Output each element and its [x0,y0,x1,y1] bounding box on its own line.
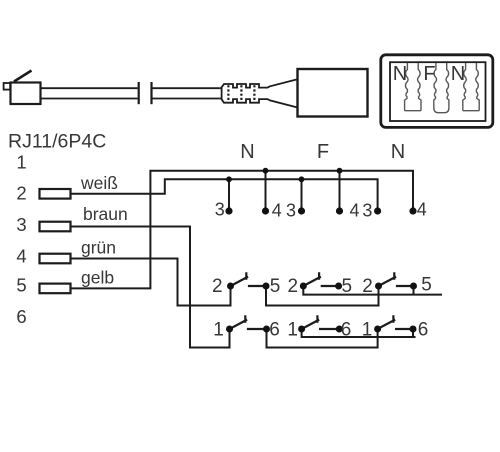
wire: stem terminal 3 middle F [301,179,303,211]
svg-text:3: 3 [215,200,225,220]
TAE socket slot N right [463,63,479,111]
terminal dot 4 middle F [336,207,343,214]
contact dot 5 middle F [335,283,342,290]
TAE socket slot F middle [434,63,449,113]
contact dot 5 left N [263,283,270,290]
switch 2-5 right N [379,272,414,286]
pin 2 contact rect [40,189,71,199]
svg-text:6: 6 [269,320,280,341]
cable break bar left [138,82,140,104]
switch 2-5 left N [231,272,267,286]
wire: link 6 of left N to 1 of right N [267,329,378,348]
wire: link 1 of middle F to 6 of right N [302,329,416,337]
svg-text:gelb: gelb [81,268,114,288]
wire: stem terminal 3 left N [228,179,230,211]
svg-text:5: 5 [421,275,432,296]
contact dot 1 left N [226,326,233,333]
svg-text:2: 2 [288,276,299,297]
terminal dot 4 left N [262,207,269,214]
contact dot 1 middle F [298,326,305,333]
svg-text:1: 1 [213,320,224,341]
svg-text:N: N [240,141,254,163]
TAE socket inner frame [390,62,486,121]
TAE socket slot N left [405,63,421,111]
svg-text:F: F [423,63,435,85]
svg-text:1: 1 [287,320,298,341]
cable break bar right [150,82,152,104]
wire: weiss pin2 to lower bus, ends at terminal 3 of right N [71,179,378,211]
svg-text:5: 5 [270,276,281,297]
pin 5 contact rect [40,284,71,294]
contact dot 1 right N [374,326,381,333]
svg-text:4: 4 [16,245,26,266]
wire: gruen pin4 down to switch contact 2 of left N [71,259,231,306]
svg-text:grün: grün [81,238,116,258]
svg-text:6: 6 [418,320,429,341]
boot rib dotted lines [228,85,254,101]
svg-text:5: 5 [342,276,353,297]
svg-text:4: 4 [272,201,282,221]
svg-text:6: 6 [16,306,26,327]
terminal dot 3 left N [225,207,232,214]
svg-text:RJ11/6P4C: RJ11/6P4C [8,131,106,153]
junction dot upper bus at 4 middle [337,168,343,174]
TAE plug body [298,69,368,117]
svg-text:3: 3 [362,201,372,221]
svg-text:F: F [317,141,329,163]
RJ11 plug body [11,83,41,105]
svg-text:6: 6 [341,320,352,341]
TAE socket outer frame [381,55,493,128]
contact dot 6 right N [410,326,417,333]
svg-text:2: 2 [16,183,26,204]
svg-text:weiß: weiß [80,173,118,193]
RJ11 plug latch square [4,83,11,90]
wire: stem terminal 4 left N [265,171,267,211]
wire: braun pin3 down to switch contact 1 of left N [71,227,230,348]
junction dot upper bus at 4 left [263,168,269,174]
switch 1-6 middle F [302,315,340,329]
RJ11 plug latch lever [14,71,32,82]
wire: link 2 of middle F to 5 of right N and onward [303,286,442,295]
svg-text:N: N [391,141,405,163]
svg-text:3: 3 [16,214,26,235]
contact dot 6 middle F [336,326,343,333]
cable segment 2 [153,88,220,98]
svg-text:2: 2 [212,276,223,297]
TAE plug strain-relief boot [220,79,298,107]
terminal dot 3 right N [374,207,381,214]
svg-text:N: N [393,63,407,85]
svg-text:4: 4 [417,200,427,220]
cable segment 1 [41,88,138,98]
terminal dot 4 right N [409,207,416,214]
switch 2-5 middle F [303,272,338,286]
wire: link 5 of left N to 2 of right N [266,286,379,306]
pin 4 contact rect [40,254,71,264]
svg-text:1: 1 [362,320,373,341]
contact dot 2 right N [375,283,382,290]
switch 1-6 left N [230,315,267,329]
svg-text:3: 3 [286,201,296,221]
contact dot 2 left N [227,283,234,290]
svg-text:1: 1 [16,152,26,173]
contact dot 6 left N [263,326,270,333]
svg-text:N: N [451,63,465,85]
svg-text:4: 4 [349,201,359,221]
contact dot 2 middle F [300,283,307,290]
svg-text:2: 2 [362,276,373,297]
pin 3 contact rect [40,222,71,232]
contact dot 5 right N [410,283,417,290]
wire: gelb pin5 riser to upper bus, ends at terminal 4 of right N [71,171,414,289]
terminal dot 3 middle F [298,207,305,214]
switch 1-6 right N [378,315,413,329]
svg-text:5: 5 [16,275,26,296]
junction dot lower bus at 3 left [226,176,232,182]
junction dot lower bus at 3 middle [299,176,305,182]
svg-text:braun: braun [83,204,128,224]
wire: stem terminal 4 middle F [339,171,341,211]
